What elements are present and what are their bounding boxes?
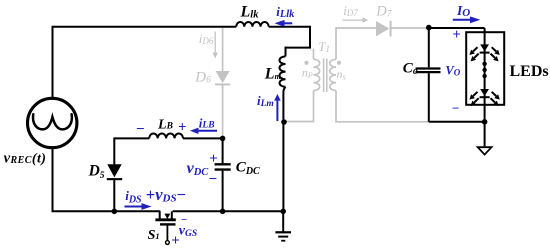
ground (signal, 3-bar) at CDC node	[275, 232, 291, 240]
wire top rail left	[53, 26, 237, 28]
wire D5 bottom	[113, 180, 115, 212]
transformer core	[324, 59, 327, 93]
wire output top rail black	[429, 27, 485, 29]
LED D_L2	[469, 89, 499, 106]
current arrow iD6	[213, 32, 218, 59]
node dot LB right	[220, 136, 226, 142]
wire step from top rail down to Lm	[285, 26, 310, 48]
inductor Llk coil	[236, 22, 268, 27]
wire node down to bottom rail	[282, 122, 284, 211]
gate lead	[166, 226, 168, 241]
wire CDC top	[222, 138, 224, 163]
wire Lm bottom to node	[283, 87, 285, 122]
svg-text:+: +	[452, 27, 461, 43]
wire primary bottom	[285, 91, 314, 122]
svg-text:+: +	[171, 233, 180, 249]
wire D5 top	[113, 137, 115, 165]
wire secondary top	[336, 28, 376, 59]
capacitor CDC plates	[215, 164, 231, 169]
wire transformer primary stub	[313, 49, 315, 60]
wire Co top	[428, 28, 430, 67]
channel bar	[155, 218, 175, 221]
wire bottom rail left	[52, 210, 161, 212]
wire LED string vertical	[484, 28, 486, 122]
transformer polarity dot secondary	[337, 61, 341, 65]
svg-text:−: −	[209, 171, 218, 187]
wire Lm top stub	[285, 47, 287, 57]
gate plate	[160, 223, 176, 225]
svg-text:+: +	[178, 119, 187, 135]
current arrow iLm (up)	[276, 100, 278, 122]
capacitor Co plates	[416, 69, 441, 73]
current arrow iD7	[343, 17, 369, 22]
diode D7	[376, 21, 392, 37]
wire secondary bottom	[336, 91, 429, 122]
transformer T1 primary winding nP	[314, 59, 320, 90]
current arrow iLB (left)	[198, 130, 218, 132]
current arrow iLlk (left)	[283, 22, 292, 24]
wire left vertical bottom	[52, 147, 54, 211]
diode D6	[215, 71, 230, 85]
wire left vertical top	[52, 26, 54, 99]
node dot LED bottom	[482, 119, 488, 125]
node dot Lm bottom	[281, 119, 287, 125]
MOSFET body arrow	[164, 214, 170, 219]
wire LB left	[114, 137, 149, 139]
wire D7 to node	[391, 27, 429, 29]
node dot D7/Co	[426, 25, 432, 31]
wire top rail right of coil	[269, 26, 310, 28]
transformer polarity dot primary	[304, 61, 308, 65]
source rectified-sine symbol	[33, 114, 72, 129]
wire D6 branch vertical (top rail to node)	[222, 27, 224, 71]
svg-text:LEDs: LEDs	[510, 63, 549, 80]
svg-text:−: −	[136, 122, 145, 138]
node dot CDC bottom	[220, 209, 226, 215]
gate terminal circle	[166, 241, 170, 245]
transformer T1 secondary winding nS	[330, 59, 336, 90]
current arrow iDS (right)	[125, 206, 144, 208]
wire CDC bottom	[222, 171, 224, 212]
ground (open triangle) at LED output	[478, 147, 492, 154]
svg-text:+: +	[209, 151, 218, 167]
wire bottom rail right	[173, 210, 284, 212]
wire output bottom black	[429, 121, 485, 123]
LED D_L1	[469, 44, 499, 61]
svg-text:−: −	[452, 101, 459, 116]
source stub	[171, 211, 173, 219]
wire ground stem right	[484, 122, 486, 147]
source vREC(t) circle	[28, 98, 77, 147]
node dot ground left	[280, 209, 286, 215]
current arrow IO (right)	[453, 19, 472, 21]
node dot D5 bottom	[112, 209, 118, 215]
svg-text:S1: S1	[148, 228, 160, 243]
drain stub	[159, 211, 161, 219]
wire ground stem left	[282, 211, 284, 231]
diode D5	[107, 164, 122, 180]
inductor Lm coil	[280, 56, 286, 86]
MOSFET S1	[155, 211, 175, 244]
LED ellipsis dots	[482, 62, 486, 66]
LED box	[466, 32, 504, 105]
inductor LB coil	[149, 133, 183, 138]
wire Co bottom	[428, 73, 430, 122]
wire LB right	[183, 137, 223, 139]
